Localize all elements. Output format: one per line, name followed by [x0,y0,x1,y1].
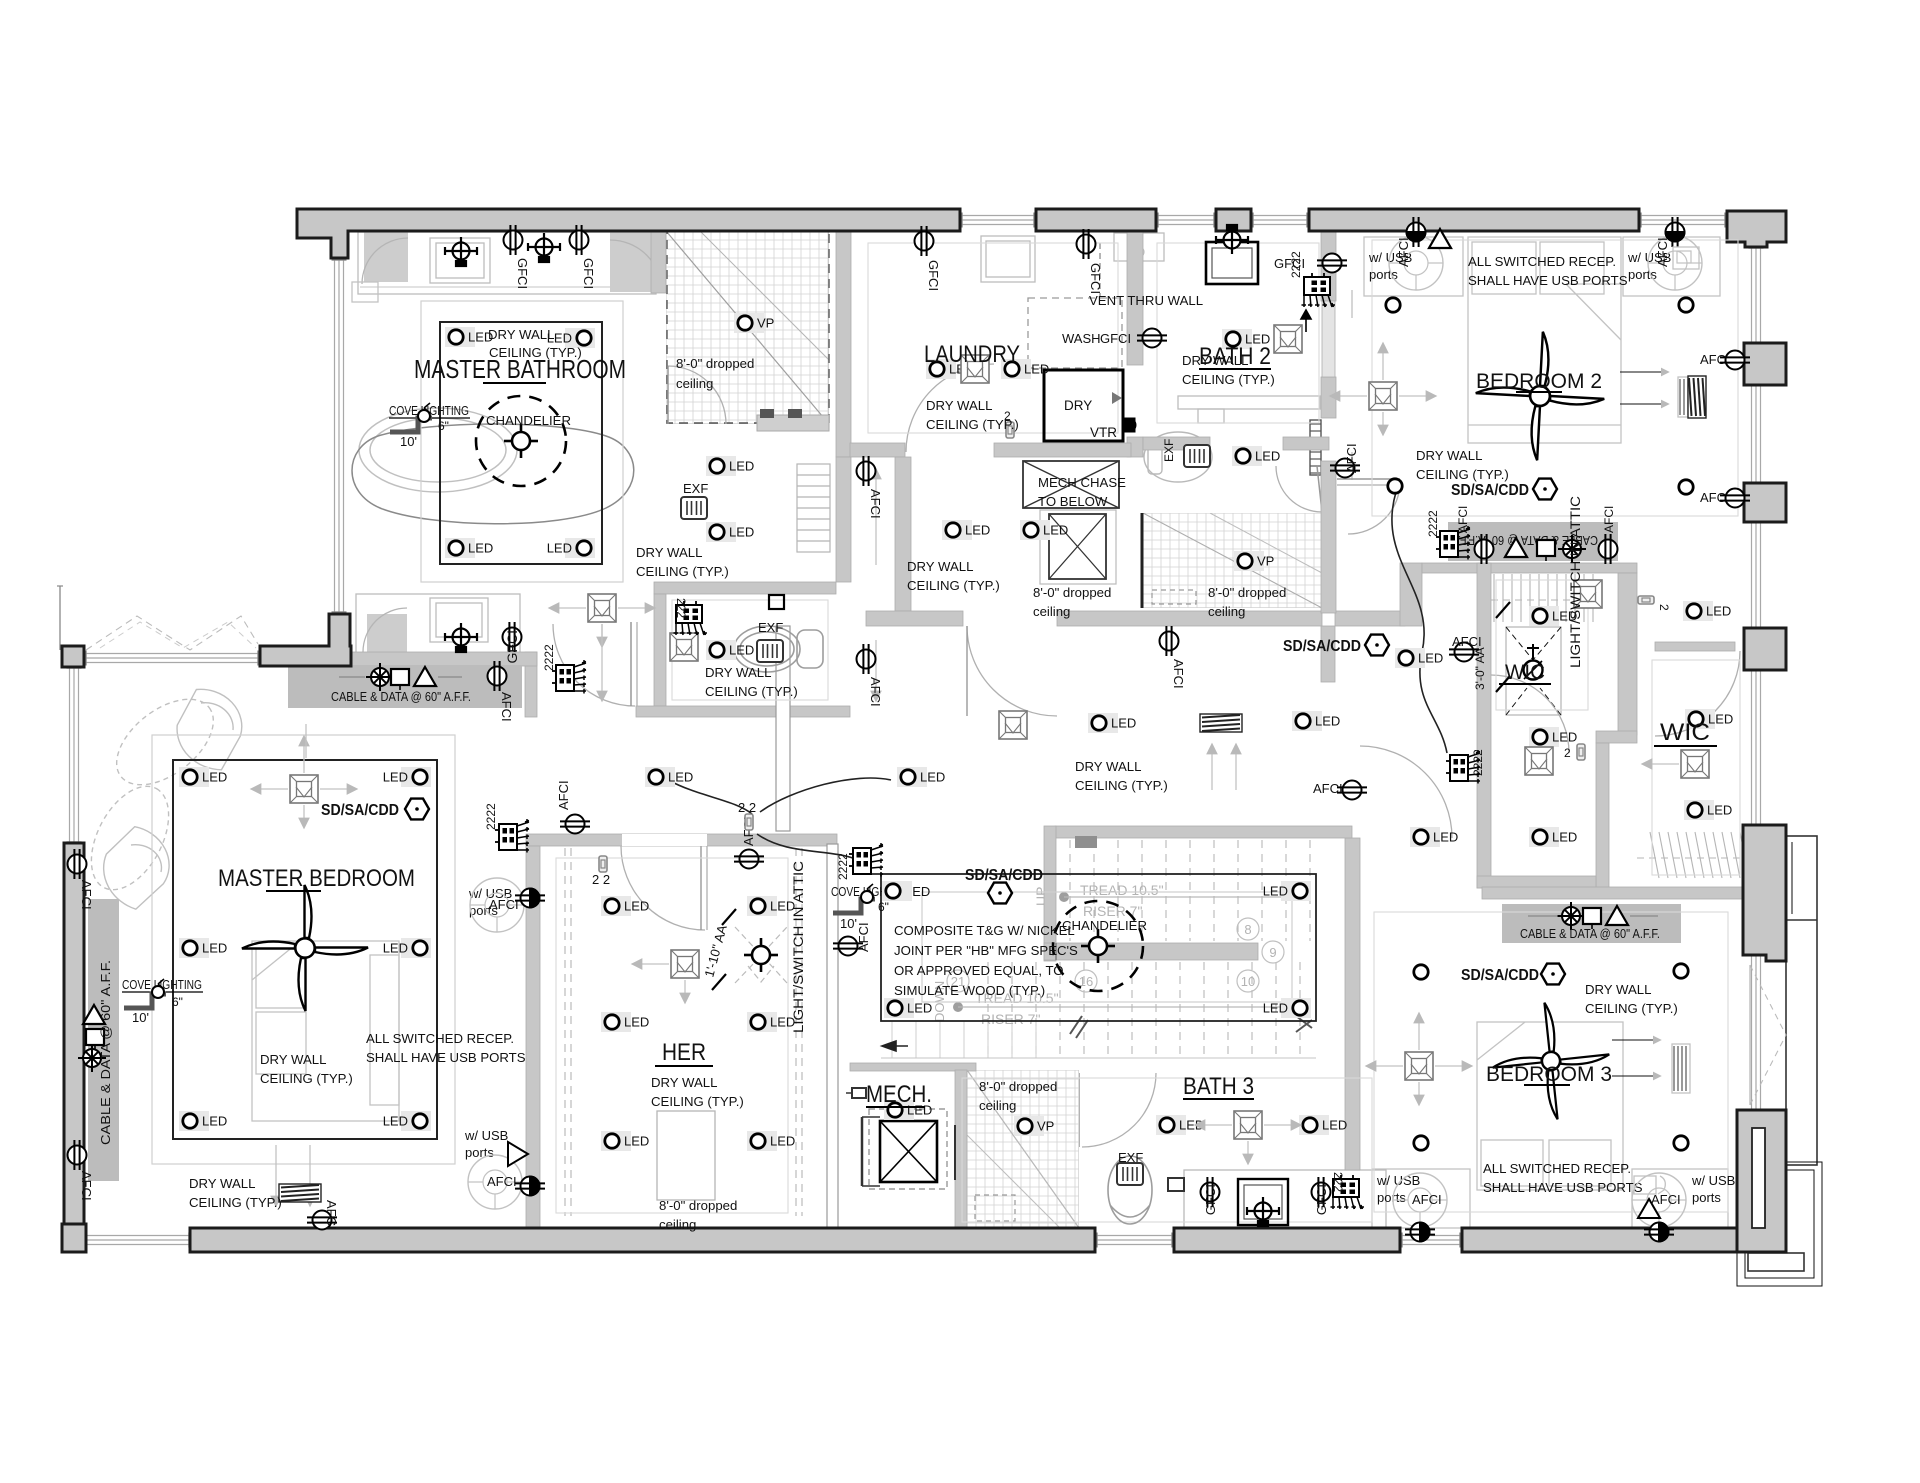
svg-text:AFCI: AFCI [1452,634,1482,649]
svg-text:8'-0" dropped: 8'-0" dropped [979,1079,1057,1094]
svg-text:BEDROOM 3: BEDROOM 3 [1486,1063,1612,1086]
svg-text:EXF: EXF [683,481,708,496]
svg-text:MECH.: MECH. [866,1081,932,1108]
svg-text:ports: ports [465,1145,494,1160]
svg-text:2 2: 2 2 [592,872,610,887]
svg-text:LED: LED [1708,712,1733,727]
svg-text:CEILING (TYP.): CEILING (TYP.) [189,1195,282,1210]
svg-text:AFCI: AFCI [556,780,571,810]
svg-text:8: 8 [1244,922,1251,937]
svg-text:2222: 2222 [484,803,498,830]
svg-text:WIC: WIC [1505,661,1545,684]
svg-text:EXF: EXF [758,620,783,635]
svg-text:HER: HER [662,1039,706,1066]
svg-text:LED: LED [668,770,693,785]
svg-text:LED: LED [1552,730,1577,745]
svg-text:JOINT PER "HB" MFG SPEC'S: JOINT PER "HB" MFG SPEC'S [894,943,1078,958]
svg-text:VP: VP [1257,554,1274,569]
svg-text:ceiling: ceiling [979,1098,1016,1113]
svg-text:SD/SA/CDD: SD/SA/CDD [1451,482,1529,499]
svg-text:2222: 2222 [836,853,850,880]
svg-text:VP: VP [1037,1119,1054,1134]
svg-text:AFCI: AFCI [489,897,519,912]
svg-text:2 2: 2 2 [738,800,756,815]
svg-text:CEILING (TYP.): CEILING (TYP.) [705,684,798,699]
svg-text:8'-0" dropped: 8'-0" dropped [676,356,754,371]
svg-text:LED: LED [1322,1118,1347,1133]
svg-text:8'-0" dropped: 8'-0" dropped [1033,585,1111,600]
svg-text:LED: LED [1433,830,1458,845]
svg-text:GFCI: GFCI [1203,1184,1218,1215]
svg-text:10': 10' [132,1010,149,1025]
svg-text:MECH CHASE: MECH CHASE [1038,475,1126,490]
svg-text:ALL SWITCHED RECEP.: ALL SWITCHED RECEP. [1483,1161,1631,1176]
svg-text:2222: 2222 [1426,510,1440,537]
svg-text:3'-0" AA: 3'-0" AA [1473,647,1487,690]
svg-text:ALL SWITCHED RECEP.: ALL SWITCHED RECEP. [1468,254,1616,269]
svg-text:2222: 2222 [542,644,556,671]
svg-text:WIC: WIC [1660,719,1710,746]
svg-text:8'-0" dropped: 8'-0" dropped [659,1198,737,1213]
svg-text:w/ USB: w/ USB [1691,1173,1735,1188]
svg-text:VP: VP [757,316,774,331]
svg-text:w/ USB: w/ USB [464,1128,508,1143]
svg-text:10': 10' [400,434,417,449]
svg-text:LED: LED [202,1114,227,1129]
svg-text:DRY WALL: DRY WALL [260,1052,326,1067]
svg-text:LED: LED [729,459,754,474]
svg-text:EXF: EXF [1162,439,1176,462]
svg-text:LED: LED [1315,714,1340,729]
svg-text:RISER 7": RISER 7" [981,1011,1040,1027]
svg-text:CABLE & DATA @ 60" A.F.F.: CABLE & DATA @ 60" A.F.F. [98,960,113,1145]
svg-text:2: 2 [1657,604,1671,611]
svg-text:LED: LED [1418,651,1443,666]
svg-text:LED: LED [624,1134,649,1149]
svg-text:SHALL HAVE USB PORTS: SHALL HAVE USB PORTS [1483,1180,1643,1195]
svg-text:AFCI: AFCI [487,1174,517,1189]
svg-text:SHALL HAVE USB PORTS: SHALL HAVE USB PORTS [1468,273,1628,288]
svg-text:LED: LED [202,770,227,785]
svg-text:LED: LED [547,541,572,556]
svg-text:DRY WALL: DRY WALL [1585,982,1651,997]
svg-text:10: 10 [1241,974,1255,989]
svg-text:CEILING (TYP.): CEILING (TYP.) [1416,467,1509,482]
svg-text:ports: ports [1377,1190,1406,1205]
svg-text:AFCI: AFCI [1171,659,1186,689]
svg-text:9: 9 [1269,945,1276,960]
svg-text:LED: LED [1255,449,1280,464]
svg-text:AFCI: AFCI [79,1171,94,1201]
svg-text:8'-0" dropped: 8'-0" dropped [1208,585,1286,600]
svg-text:222: 222 [1331,1172,1345,1192]
svg-text:VENT THRU WALL: VENT THRU WALL [1089,293,1203,308]
svg-text:CEILING (TYP.): CEILING (TYP.) [260,1071,353,1086]
svg-text:LED: LED [624,899,649,914]
svg-text:GFCI: GFCI [1314,1184,1329,1215]
svg-text:AFCI: AFCI [1655,237,1670,267]
svg-text:DRY WALL: DRY WALL [1416,448,1482,463]
svg-text:CEILING (TYP.): CEILING (TYP.) [1075,778,1168,793]
svg-text:TREAD 10.5": TREAD 10.5" [1080,882,1164,898]
svg-text:AFCI: AFCI [1602,506,1616,533]
svg-text:6": 6" [878,900,889,914]
svg-text:MASTER BEDROOM: MASTER BEDROOM [218,865,415,892]
svg-text:LED: LED [1043,523,1068,538]
svg-text:2222: 2222 [1289,251,1303,278]
svg-text:GFCI: GFCI [926,260,941,291]
svg-text:DRY: DRY [1064,398,1092,413]
svg-text:VTR: VTR [1090,425,1117,440]
svg-text:LED: LED [729,525,754,540]
svg-text:WASH: WASH [1062,331,1101,346]
svg-text:AFCI: AFCI [324,1200,339,1230]
svg-text:CEILING (TYP.): CEILING (TYP.) [651,1094,744,1109]
svg-text:LIGHT/SWITCH IN ATTIC: LIGHT/SWITCH IN ATTIC [1568,496,1583,668]
svg-text:LED: LED [1263,1001,1288,1016]
svg-text:GFCI: GFCI [1100,331,1131,346]
svg-text:CEILING (TYP.): CEILING (TYP.) [1182,372,1275,387]
svg-text:COMPOSITE T&G W/ NICKEL: COMPOSITE T&G W/ NICKEL [894,923,1075,938]
svg-text:AFCI: AFCI [499,692,514,722]
svg-text:LED: LED [383,1114,408,1129]
svg-text:LED: LED [383,941,408,956]
svg-text:CEILING (TYP.): CEILING (TYP.) [636,564,729,579]
svg-text:OR APPROVED EQUAL, TO: OR APPROVED EQUAL, TO [894,963,1064,978]
svg-text:DRY WALL: DRY WALL [926,398,992,413]
svg-text:222: 222 [674,598,688,618]
svg-text:w/ USB: w/ USB [1376,1173,1420,1188]
svg-text:LED: LED [907,1001,932,1016]
svg-text:CABLE & DATA @ 60" A.F.F.: CABLE & DATA @ 60" A.F.F. [1520,926,1660,941]
svg-text:ceiling: ceiling [1033,604,1070,619]
svg-text:CEILING (TYP.): CEILING (TYP.) [926,417,1019,432]
svg-text:ceiling: ceiling [659,1217,696,1232]
svg-text:DRY WALL: DRY WALL [651,1075,717,1090]
svg-text:AFCI: AFCI [868,489,883,519]
svg-text:DRY WALL: DRY WALL [907,559,973,574]
svg-text:DRY WALL: DRY WALL [189,1176,255,1191]
svg-text:AFCI: AFCI [1344,443,1359,473]
svg-text:BEDROOM 2: BEDROOM 2 [1476,370,1602,393]
svg-text:DRY WALL: DRY WALL [1182,353,1248,368]
svg-text:AFCI: AFCI [79,880,94,910]
svg-text:6": 6" [172,995,183,1009]
svg-text:ceiling: ceiling [676,376,713,391]
svg-text:LED: LED [1707,803,1732,818]
svg-text:CEILING (TYP.): CEILING (TYP.) [907,578,1000,593]
svg-text:ALL SWITCHED RECEP.: ALL SWITCHED RECEP. [366,1031,514,1046]
svg-text:GFCI: GFCI [581,258,596,289]
svg-text:EXF: EXF [1118,1150,1143,1165]
svg-text:ceiling: ceiling [1208,604,1245,619]
svg-text:DRY WALL: DRY WALL [488,327,554,342]
svg-text:GFCI: GFCI [515,258,530,289]
svg-text:CHANDELIER: CHANDELIER [486,413,571,428]
svg-text:LED: LED [920,770,945,785]
svg-text:LED: LED [965,523,990,538]
svg-text:LED: LED [729,643,754,658]
svg-text:CEILING (TYP.): CEILING (TYP.) [489,345,582,360]
svg-text:AFCI: AFCI [1313,781,1343,796]
svg-text:LIGHT/SWITCH IN ATTIC: LIGHT/SWITCH IN ATTIC [791,861,806,1033]
svg-text:ports: ports [1692,1190,1721,1205]
svg-text:LED: LED [468,541,493,556]
svg-text:LED: LED [1111,716,1136,731]
svg-text:DRY WALL: DRY WALL [705,665,771,680]
svg-text:LED: LED [1552,830,1577,845]
svg-text:CHANDELIER: CHANDELIER [1062,918,1147,933]
svg-text:SD/SA/CDD: SD/SA/CDD [1283,638,1361,655]
svg-text:LED: LED [1024,362,1049,377]
svg-text:TO BELOW: TO BELOW [1038,494,1108,509]
svg-text:AFCI: AFCI [856,922,871,952]
svg-text:SIMULATE WOOD (TYP.): SIMULATE WOOD (TYP.) [894,983,1045,998]
svg-text:6": 6" [438,419,449,433]
svg-text:LAUNDRY: LAUNDRY [924,341,1020,368]
svg-text:SD/SA/CDD: SD/SA/CDD [1461,967,1539,984]
svg-text:AFCI: AFCI [1456,506,1470,533]
svg-text:CEILING (TYP.): CEILING (TYP.) [1585,1001,1678,1016]
svg-text:LED: LED [770,1134,795,1149]
svg-text:10': 10' [840,916,857,931]
svg-text:GFCI: GFCI [504,630,520,663]
svg-text:AFCI: AFCI [868,677,883,707]
svg-text:2222: 2222 [1471,749,1485,776]
svg-text:LED: LED [1263,884,1288,899]
svg-text:2: 2 [1564,746,1571,760]
svg-text:AFCI: AFCI [1412,1192,1442,1207]
svg-text:CABLE & DATA @ 60" A.F.F.: CABLE & DATA @ 60" A.F.F. [331,689,471,704]
svg-text:SD/SA/CDD: SD/SA/CDD [321,802,399,819]
svg-text:AFCI: AFCI [1396,237,1411,267]
svg-text:DRY WALL: DRY WALL [1075,759,1141,774]
svg-text:SHALL HAVE USB PORTS: SHALL HAVE USB PORTS [366,1050,526,1065]
svg-text:LED: LED [383,770,408,785]
svg-text:DRY WALL: DRY WALL [636,545,702,560]
svg-text:LED: LED [624,1015,649,1030]
svg-text:LED: LED [202,941,227,956]
svg-text:LED: LED [1706,604,1731,619]
svg-text:GFCI: GFCI [1088,263,1103,294]
svg-text:BATH 3: BATH 3 [1183,1073,1254,1100]
